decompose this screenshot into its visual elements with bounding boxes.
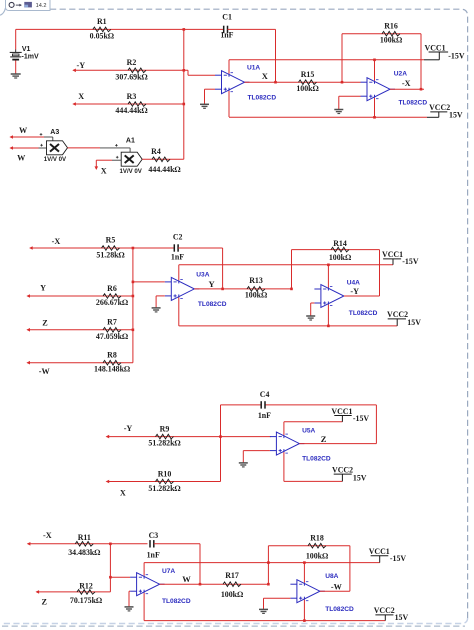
svg-text:R1: R1 <box>97 17 107 26</box>
svg-text:R17: R17 <box>225 571 239 580</box>
svg-text:X: X <box>262 71 269 81</box>
svg-text:VCC2: VCC2 <box>374 606 395 615</box>
svg-text:1nF: 1nF <box>220 31 233 40</box>
svg-text:100kΩ: 100kΩ <box>380 36 402 45</box>
svg-text:W: W <box>19 126 28 135</box>
svg-text:U4A: U4A <box>347 279 360 286</box>
svg-text:R4: R4 <box>151 147 161 156</box>
svg-text:C1: C1 <box>222 12 232 21</box>
svg-text:TL082CD: TL082CD <box>302 455 331 462</box>
svg-text:R13: R13 <box>249 276 263 285</box>
svg-text:U5A: U5A <box>302 427 315 434</box>
svg-text:14.2: 14.2 <box>36 3 47 9</box>
svg-text:47.059kΩ: 47.059kΩ <box>96 332 128 341</box>
svg-text:100kΩ: 100kΩ <box>329 253 351 262</box>
svg-text:-15V: -15V <box>353 414 370 423</box>
svg-text:1nF: 1nF <box>171 253 184 262</box>
svg-text:0.05kΩ: 0.05kΩ <box>90 31 114 40</box>
svg-text:VCC2: VCC2 <box>332 465 353 474</box>
svg-text:TL082CD: TL082CD <box>198 301 227 308</box>
svg-text:R7: R7 <box>107 318 117 327</box>
svg-text:R16: R16 <box>384 22 398 31</box>
svg-text:100kΩ: 100kΩ <box>296 84 318 93</box>
svg-text:51.282kΩ: 51.282kΩ <box>148 439 180 448</box>
svg-text:100kΩ: 100kΩ <box>221 590 243 599</box>
svg-text:R12: R12 <box>79 582 93 591</box>
svg-text:Z: Z <box>321 434 327 444</box>
svg-text:-Y: -Y <box>350 287 359 296</box>
svg-text:X: X <box>101 166 107 175</box>
svg-text:A1: A1 <box>126 138 135 145</box>
svg-text:R6: R6 <box>107 284 117 293</box>
svg-text:X: X <box>78 92 84 101</box>
svg-text:R5: R5 <box>106 236 116 245</box>
svg-text:R2: R2 <box>127 58 137 67</box>
svg-text:266.67kΩ: 266.67kΩ <box>96 298 128 307</box>
svg-text:VCC2: VCC2 <box>387 310 408 319</box>
svg-text:VCC1: VCC1 <box>382 250 403 259</box>
svg-text:TL082CD: TL082CD <box>248 94 277 101</box>
svg-text:Y: Y <box>40 284 46 293</box>
svg-text:70.175kΩ: 70.175kΩ <box>70 596 102 605</box>
svg-text:15V: 15V <box>407 318 421 327</box>
svg-text:U2A: U2A <box>394 70 407 77</box>
svg-text:R18: R18 <box>310 534 324 543</box>
svg-text:U3A: U3A <box>196 271 209 278</box>
svg-text:U8A: U8A <box>325 573 338 580</box>
svg-text:15V: 15V <box>395 613 409 622</box>
svg-text:U1A: U1A <box>247 65 260 72</box>
svg-text:-Y: -Y <box>77 61 86 70</box>
svg-text:TL082CD: TL082CD <box>399 100 428 107</box>
svg-text:W: W <box>17 154 26 163</box>
svg-text:1V/V 0V: 1V/V 0V <box>44 156 67 163</box>
svg-text:R3: R3 <box>127 92 137 101</box>
svg-text:C2: C2 <box>173 233 183 242</box>
svg-text:R9: R9 <box>160 424 170 433</box>
svg-text:51.282kΩ: 51.282kΩ <box>148 484 180 493</box>
svg-text:-W: -W <box>331 582 343 591</box>
svg-text:U7A: U7A <box>162 568 175 575</box>
svg-text:15V: 15V <box>353 473 367 482</box>
svg-text:VCC1: VCC1 <box>331 407 352 416</box>
svg-text:R10: R10 <box>158 469 172 478</box>
svg-text:TL082CD: TL082CD <box>162 598 191 605</box>
svg-text:R15: R15 <box>301 70 315 79</box>
svg-text:-W: -W <box>39 367 51 376</box>
svg-text:1nF: 1nF <box>147 551 160 560</box>
svg-text:V1: V1 <box>22 46 31 53</box>
svg-text:TL082CD: TL082CD <box>325 606 354 613</box>
svg-text:444.44kΩ: 444.44kΩ <box>115 106 147 115</box>
svg-text:Y: Y <box>209 279 215 289</box>
svg-text:-1mV: -1mV <box>22 54 39 61</box>
svg-text:VCC1: VCC1 <box>425 43 446 52</box>
svg-text:TL082CD: TL082CD <box>349 310 378 317</box>
svg-text:C4: C4 <box>260 390 270 399</box>
svg-text:34.483kΩ: 34.483kΩ <box>68 548 100 557</box>
svg-text:-Y: -Y <box>124 424 133 433</box>
svg-text:VCC2: VCC2 <box>429 103 450 112</box>
svg-text:444.44kΩ: 444.44kΩ <box>148 165 180 174</box>
svg-text:-X: -X <box>52 237 61 246</box>
svg-text:C3: C3 <box>149 531 159 540</box>
svg-text:X: X <box>120 488 126 497</box>
svg-text:Z: Z <box>42 597 48 606</box>
svg-text:1V/V 0V: 1V/V 0V <box>120 168 143 175</box>
svg-text:-15V: -15V <box>448 51 465 60</box>
svg-text:A3: A3 <box>50 129 59 136</box>
svg-text:R11: R11 <box>78 533 91 542</box>
svg-text:51.28kΩ: 51.28kΩ <box>96 250 124 259</box>
svg-text:-X: -X <box>402 79 411 88</box>
svg-text:-15V: -15V <box>402 257 419 266</box>
svg-text:100kΩ: 100kΩ <box>245 290 267 299</box>
svg-text:100kΩ: 100kΩ <box>306 551 328 560</box>
svg-text:1nF: 1nF <box>258 411 271 420</box>
svg-text:307.69kΩ: 307.69kΩ <box>115 72 147 81</box>
svg-text:Z: Z <box>42 319 48 328</box>
svg-text:VCC1: VCC1 <box>369 547 390 556</box>
svg-text:R14: R14 <box>333 239 347 248</box>
svg-text:148.148kΩ: 148.148kΩ <box>94 365 130 374</box>
svg-text:W: W <box>182 574 191 584</box>
svg-text:-15V: -15V <box>390 554 407 563</box>
svg-text:-X: -X <box>43 531 52 540</box>
svg-text:R8: R8 <box>107 351 117 360</box>
svg-text:15V: 15V <box>449 111 463 120</box>
